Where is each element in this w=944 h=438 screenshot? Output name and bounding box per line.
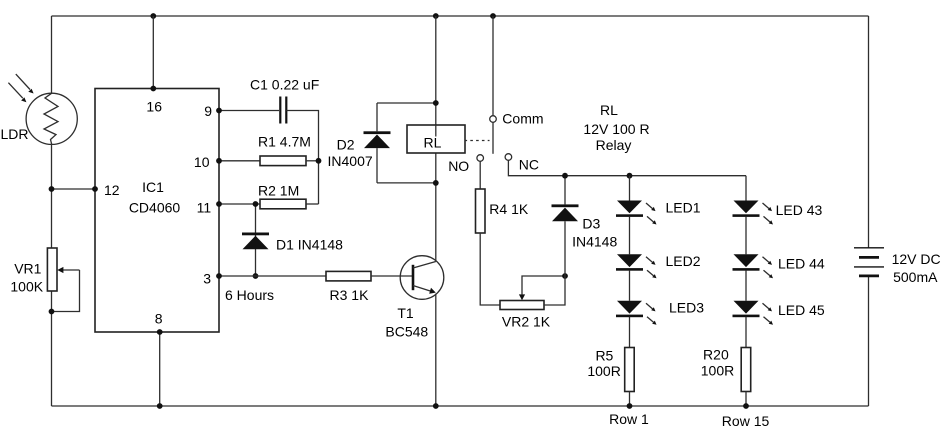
node junction pin 12 — [92, 186, 98, 192]
resistor R1 — [260, 156, 306, 166]
wire pin 9 to C1 — [219, 110, 279, 112]
node junction VR2 wiper D3 — [562, 273, 568, 279]
node junction pin 11 — [216, 201, 222, 207]
svg-text:LED3: LED3 — [669, 300, 704, 316]
svg-text:LED 45: LED 45 — [778, 302, 825, 318]
svg-text:LED 43: LED 43 — [776, 202, 823, 218]
wire comm from top rail — [492, 16, 494, 115]
svg-text:C1 0.22 uF: C1 0.22 uF — [250, 77, 319, 93]
svg-text:D3: D3 — [582, 216, 600, 232]
svg-text:NO: NO — [448, 158, 469, 174]
svg-text:3: 3 — [203, 271, 211, 287]
wire NC to LED rail — [508, 160, 746, 175]
svg-text:T1: T1 — [397, 305, 414, 321]
wire D3 bottom to VR2 right — [544, 221, 565, 305]
LDR light arrow 2 — [8, 83, 26, 103]
node junction R1 feedback — [316, 158, 322, 164]
node junction bottom rail pin8 — [157, 403, 163, 409]
node junction pin 10 — [216, 158, 222, 164]
wire top supply rail — [52, 15, 869, 17]
svg-text:D1 IN4148: D1 IN4148 — [276, 237, 343, 253]
wire bottom rail — [52, 405, 869, 407]
svg-text:D2: D2 — [337, 136, 355, 152]
wire R5 to bottom rail — [629, 392, 631, 407]
LED LED43 — [733, 201, 774, 225]
op-amp IC1 CD4060 box — [95, 89, 219, 333]
relay contact NO terminal — [477, 155, 484, 162]
wire D1 branch vertical — [255, 204, 257, 276]
svg-text:100R: 100R — [587, 363, 620, 379]
LED LED45 — [733, 301, 774, 325]
wire left rail upper (to LDR) — [51, 16, 53, 93]
svg-text:12: 12 — [104, 182, 120, 198]
svg-text:LED1: LED1 — [666, 200, 701, 216]
svg-text:R3 1K: R3 1K — [330, 287, 370, 303]
node junction VR1 wiper return — [49, 309, 55, 315]
svg-text:VR1: VR1 — [14, 261, 41, 277]
node junction D3 rail — [562, 173, 568, 179]
node junction pin 3 — [216, 273, 222, 279]
capacitor C1 plates — [280, 97, 286, 124]
wire pin 10 to R1 — [219, 160, 260, 162]
svg-text:8: 8 — [155, 311, 163, 327]
svg-text:LDR: LDR — [1, 126, 29, 142]
svg-text:Relay: Relay — [596, 137, 632, 153]
svg-text:LED2: LED2 — [666, 253, 701, 269]
svg-text:R1 4.7M: R1 4.7M — [258, 134, 311, 150]
svg-text:R20: R20 — [703, 347, 729, 363]
resistor R4 — [476, 189, 486, 233]
wire C1 to feedback vertical — [286, 111, 318, 205]
svg-text:Row 1: Row 1 — [609, 411, 649, 427]
LDR photoresistor — [26, 93, 77, 144]
wire LED column row1 top — [629, 176, 631, 201]
svg-text:16: 16 — [146, 98, 162, 114]
wire LED45 to R20 — [745, 317, 747, 348]
svg-text:IC1: IC1 — [142, 179, 164, 195]
wire right rail upper (to battery) — [868, 16, 870, 248]
wire R4 to VR2 — [480, 233, 500, 305]
svg-text:Row 15: Row 15 — [722, 413, 770, 429]
wire pin 3 to R3 — [219, 275, 326, 277]
svg-text:R5: R5 — [595, 348, 613, 364]
svg-text:RL: RL — [424, 135, 442, 151]
wire D2 anode lead — [376, 103, 378, 131]
wire pin 12 from left rail — [52, 188, 96, 190]
relay contact Comm terminal — [490, 116, 497, 123]
wire pin 11 to R2 — [219, 203, 260, 205]
svg-text:NC: NC — [519, 157, 539, 173]
svg-text:11: 11 — [197, 199, 212, 215]
wire right rail lower (battery to bottom) — [868, 276, 870, 406]
transistor T1 BC548 — [400, 256, 444, 300]
node junction row15 bottom rail — [743, 403, 749, 409]
svg-text:IN4148: IN4148 — [572, 234, 617, 250]
diode D1 IN4148 — [242, 233, 269, 250]
potentiometer VR2 — [500, 276, 565, 310]
diode D2 IN4007 — [364, 131, 391, 148]
wire LED3 to R5 — [629, 317, 631, 348]
svg-text:Comm: Comm — [502, 111, 543, 127]
node junction top rail relay coil — [433, 13, 439, 19]
wire T1 emitter to bottom rail — [435, 294, 437, 406]
wire relay coil inside box — [435, 125, 437, 137]
svg-text:CD4060: CD4060 — [129, 200, 181, 216]
svg-text:BC548: BC548 — [385, 324, 428, 340]
node junction D1 bottom pin3 — [253, 273, 259, 279]
wire R3 to T1 base — [371, 275, 413, 277]
relay coil RL box — [407, 125, 465, 153]
svg-text:VR2 1K: VR2 1K — [502, 314, 551, 330]
node junction top rail comm — [490, 13, 496, 19]
resistor R5 — [625, 348, 635, 392]
wire LED44 to LED45 — [745, 270, 747, 301]
LED LED2 — [616, 254, 657, 278]
svg-text:500mA: 500mA — [893, 269, 938, 285]
relay armature — [492, 123, 494, 154]
wire LED43 to LED44 — [745, 216, 747, 254]
svg-text:R2 1M: R2 1M — [258, 183, 299, 199]
node junction top rail pin16 — [150, 13, 156, 19]
LDR light arrow 1 — [16, 74, 34, 93]
wire left rail VR1 to bottom — [51, 291, 53, 406]
svg-text:100R: 100R — [701, 363, 734, 379]
wire NO to R4 — [479, 161, 481, 189]
svg-text:R4 1K: R4 1K — [489, 201, 529, 217]
battery 12V DC source — [854, 248, 884, 276]
node junction D1 top — [253, 201, 259, 207]
svg-text:12V 100 R: 12V 100 R — [583, 121, 649, 137]
svg-text:12V DC: 12V DC — [892, 251, 941, 267]
wire D2 cathode lead — [376, 148, 378, 183]
resistor R2 — [260, 199, 306, 209]
wire R20 to bottom rail — [745, 392, 747, 407]
LED LED1 — [616, 201, 657, 225]
resistor R3 — [326, 271, 371, 281]
wire D2 bottom stub — [377, 182, 436, 184]
svg-text:6 Hours: 6 Hours — [225, 287, 274, 303]
svg-text:9: 9 — [204, 103, 212, 119]
wire LED2 to LED3 — [629, 270, 631, 301]
wire R2 to feedback vertical — [306, 203, 319, 205]
svg-text:IN4007: IN4007 — [328, 153, 373, 169]
diode D3 IN4148 — [552, 204, 579, 221]
node junction pin 8 — [157, 329, 163, 335]
LED LED3 — [616, 301, 657, 325]
resistor R20 — [741, 348, 751, 392]
relay actuator dotted link — [465, 140, 490, 142]
wire R1 to feedback vertical — [306, 160, 319, 162]
node junction left rail pin12 — [49, 186, 55, 192]
svg-text:RL: RL — [600, 102, 618, 118]
node junction pin 16 — [150, 86, 156, 92]
node junction D2 top — [433, 100, 439, 106]
relay contact NC terminal — [505, 154, 512, 161]
node junction LED row1 rail — [627, 173, 633, 179]
node junction pin 9 — [216, 108, 222, 114]
LED LED44 — [733, 254, 774, 278]
wire pin 16 to top rail — [152, 16, 154, 89]
wire D3 top lead — [564, 176, 566, 205]
svg-text:100K: 100K — [10, 279, 43, 295]
wire pin 8 to bottom rail — [159, 332, 161, 406]
wire relay coil to top rail — [435, 16, 437, 154]
svg-text:10: 10 — [194, 154, 210, 170]
wire D2 top stub — [377, 102, 436, 104]
node junction row1 bottom rail — [627, 403, 633, 409]
node junction D2 bottom — [433, 180, 439, 186]
wire left rail LDR to VR1 — [51, 144, 53, 248]
svg-text:LED 44: LED 44 — [778, 256, 825, 272]
potentiometer VR1 — [47, 248, 79, 312]
wire LED1 to LED2 — [629, 216, 631, 254]
wire T1 collector to relay coil — [435, 154, 437, 262]
wire LED column row15 top — [745, 176, 747, 201]
node junction emitter bottom rail — [433, 403, 439, 409]
